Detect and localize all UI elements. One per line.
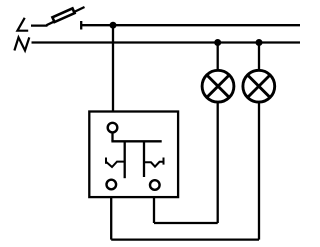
net label L (17, 18, 28, 31)
lamp E1 (202, 70, 234, 102)
wire: switch feed drop (112, 25, 114, 111)
junction: N bus to lamp E2 (256, 39, 263, 46)
wire: terminal 1 drop (110, 197, 112, 239)
wire: bottom run to lamp E2 (111, 238, 259, 240)
wire: lamp E2 riser (258, 102, 260, 240)
wire: common bar (111, 140, 161, 142)
fuse-switch body (tilted rectangle) (52, 8, 74, 22)
switch S contact b (right pole) (143, 141, 145, 177)
wire: run to lamp E1 (154, 222, 218, 224)
net label N (14, 37, 29, 50)
wire: common terminal stub (111, 132, 113, 141)
junction: N bus to lamp E1 (214, 39, 221, 46)
junction: L bus to switch feed (110, 22, 117, 29)
wire: lamp E1 to N drop (217, 43, 219, 71)
fuse-switch blade (47, 7, 85, 25)
switch S enclosure (89, 112, 178, 198)
lamp E2 (243, 70, 275, 102)
switch S terminal 2 (150, 180, 160, 190)
wire: L bus (81, 24, 300, 26)
wire: lamp E1 riser (217, 102, 219, 223)
wire: lamp E2 to N drop (258, 43, 260, 71)
wire: N bus (32, 41, 301, 43)
switch S terminal 1 (107, 180, 117, 190)
switch S common terminal (108, 123, 118, 133)
switch S actuator spring b (144, 158, 164, 167)
fuse-switch fixed contact (80, 21, 82, 30)
switch S actuator spring a (106, 158, 125, 168)
switch S contact a (left pole) (124, 141, 126, 178)
wire: L lead-in (31, 24, 48, 26)
wire: terminal 2 drop (153, 197, 155, 223)
